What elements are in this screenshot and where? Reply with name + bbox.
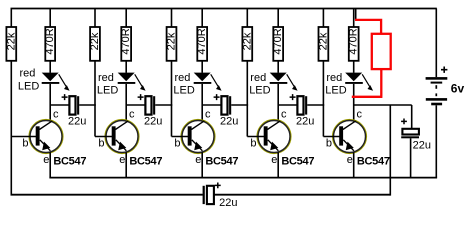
svg-text:c: c bbox=[281, 109, 287, 121]
svg-text:22k: 22k bbox=[166, 32, 178, 50]
resistor 470R stage 1 bbox=[44, 9, 56, 73]
svg-text:c: c bbox=[205, 109, 211, 121]
capacitor C2 22u coupling bbox=[126, 94, 172, 127]
capacitor 22u feedback (bottom) bbox=[203, 183, 238, 209]
pin label b Q5 bbox=[326, 137, 332, 149]
capacitor C3 22u coupling bbox=[202, 94, 248, 127]
wire black tap for red resistor bbox=[355, 9, 357, 20]
transistor Q1 BC547 bbox=[11, 120, 63, 178]
label red LED stage 2 bbox=[97, 72, 118, 96]
label red LED stage 4 bbox=[249, 72, 270, 96]
svg-text:BC547: BC547 bbox=[281, 156, 314, 168]
pin label e Q4 bbox=[271, 154, 277, 166]
svg-text:22u: 22u bbox=[219, 197, 237, 209]
transistor Q3 BC547 bbox=[172, 120, 216, 178]
svg-text:470R: 470R bbox=[44, 28, 56, 54]
pin label e Q5 bbox=[347, 154, 353, 166]
resistor 470R stage 3 bbox=[196, 9, 208, 73]
capacitor C1 22u coupling bbox=[50, 94, 96, 127]
transistor Q4 BC547 bbox=[247, 120, 291, 178]
svg-text:red: red bbox=[98, 72, 114, 84]
svg-text:LED: LED bbox=[173, 85, 194, 97]
pin label e Q3 bbox=[195, 154, 201, 166]
wire top supply rail bbox=[11, 8, 437, 10]
resistor 22k stage 5 bbox=[317, 9, 329, 137]
svg-text:22k: 22k bbox=[241, 32, 253, 50]
svg-text:e: e bbox=[271, 154, 277, 166]
pin label b Q2 bbox=[98, 137, 104, 149]
pin label c Q5 bbox=[357, 109, 363, 121]
red LED stage 5 with light arrow bbox=[345, 73, 373, 91]
svg-text:22k: 22k bbox=[317, 32, 329, 50]
red LED stage 2 with light arrow bbox=[118, 73, 146, 91]
svg-text:red: red bbox=[326, 72, 342, 84]
resistor 470R stage 5 bbox=[348, 9, 360, 73]
svg-text:22k: 22k bbox=[89, 32, 101, 50]
pin label e Q1 bbox=[43, 154, 49, 166]
svg-text:22u: 22u bbox=[413, 139, 431, 151]
pin label c Q4 bbox=[281, 109, 287, 121]
wire LED cathode to collector Q1 bbox=[49, 84, 51, 122]
svg-text:22u: 22u bbox=[68, 115, 86, 127]
svg-text:e: e bbox=[195, 154, 201, 166]
pin label e Q2 bbox=[119, 154, 125, 166]
resistor 22k stage 1 bbox=[5, 9, 17, 61]
label 6v bbox=[451, 82, 465, 96]
wire feedback bottom rail left segment (base Q1 to C5) bbox=[11, 61, 203, 195]
wire LED cathode to collector Q4 bbox=[277, 84, 279, 122]
svg-text:6v: 6v bbox=[451, 82, 465, 96]
battery 6v bbox=[426, 9, 448, 178]
pin label c Q1 bbox=[53, 109, 59, 121]
label BC547 Q3 bbox=[205, 156, 238, 168]
pin label c Q2 bbox=[129, 109, 135, 121]
wire LED cathode to collector Q5 bbox=[353, 84, 355, 122]
label BC547 Q4 bbox=[281, 156, 314, 168]
label BC547 Q1 bbox=[53, 156, 86, 168]
svg-text:470R: 470R bbox=[348, 28, 360, 54]
resistor 470R stage 4 bbox=[272, 9, 284, 73]
svg-text:c: c bbox=[53, 109, 59, 121]
label red LED stage 5 bbox=[325, 72, 346, 96]
transistor Q2 BC547 bbox=[95, 120, 139, 178]
svg-text:470R: 470R bbox=[196, 28, 208, 54]
svg-text:e: e bbox=[43, 154, 49, 166]
label BC547 Q2 bbox=[129, 156, 162, 168]
svg-text:b: b bbox=[98, 137, 104, 149]
label red LED stage 3 bbox=[173, 72, 194, 96]
svg-text:LED: LED bbox=[97, 85, 118, 97]
red LED stage 4 with light arrow bbox=[270, 73, 298, 91]
wire ground rail bbox=[49, 177, 437, 179]
svg-text:e: e bbox=[119, 154, 125, 166]
svg-text:b: b bbox=[326, 137, 332, 149]
pin label c Q3 bbox=[205, 109, 211, 121]
wire feedback bottom rail right segment (C5 to collector Q5) bbox=[214, 105, 390, 196]
svg-text:BC547: BC547 bbox=[205, 156, 238, 168]
svg-text:BC547: BC547 bbox=[53, 156, 86, 168]
wire LED cathode to collector Q2 bbox=[125, 84, 127, 122]
red LED stage 1 with light arrow bbox=[42, 73, 70, 91]
svg-text:470R: 470R bbox=[120, 28, 132, 54]
label red LED stage 1 bbox=[18, 67, 39, 92]
pin label b Q1 bbox=[22, 137, 28, 149]
resistor 470R stage 2 bbox=[120, 9, 132, 73]
wire collector Q5 node to smoothing cap bbox=[354, 105, 412, 129]
resistor (red annotation) replacement across 470R stage 5 bbox=[352, 20, 391, 97]
svg-text:470R: 470R bbox=[272, 28, 284, 54]
svg-text:22k: 22k bbox=[5, 32, 17, 50]
resistor 22k stage 2 bbox=[89, 9, 101, 137]
svg-text:red: red bbox=[20, 67, 36, 79]
resistor 22k stage 3 bbox=[166, 9, 178, 137]
svg-text:red: red bbox=[250, 72, 266, 84]
red LED stage 3 with light arrow bbox=[194, 73, 222, 91]
svg-text:22u: 22u bbox=[144, 115, 162, 127]
transistor Q5 BC547 bbox=[323, 120, 366, 178]
svg-text:red: red bbox=[175, 72, 191, 84]
svg-text:22u: 22u bbox=[296, 115, 314, 127]
svg-text:22u: 22u bbox=[220, 115, 238, 127]
svg-text:LED: LED bbox=[249, 85, 270, 97]
svg-text:c: c bbox=[129, 109, 135, 121]
label BC547 Q5 bbox=[357, 156, 390, 168]
pin label b Q4 bbox=[250, 137, 256, 149]
wire LED cathode to collector Q3 bbox=[201, 84, 203, 122]
pin label b Q3 bbox=[174, 137, 180, 149]
svg-text:b: b bbox=[22, 137, 28, 149]
capacitor 22u smoothing (right) bbox=[401, 119, 431, 178]
svg-text:BC547: BC547 bbox=[129, 156, 162, 168]
svg-text:LED: LED bbox=[325, 85, 346, 97]
resistor 22k stage 4 bbox=[241, 9, 253, 137]
capacitor C4 22u coupling bbox=[278, 94, 324, 127]
svg-text:BC547: BC547 bbox=[357, 156, 390, 168]
svg-text:e: e bbox=[347, 154, 353, 166]
svg-text:b: b bbox=[174, 137, 180, 149]
svg-text:LED: LED bbox=[18, 81, 39, 93]
svg-text:c: c bbox=[357, 109, 363, 121]
svg-text:b: b bbox=[250, 137, 256, 149]
